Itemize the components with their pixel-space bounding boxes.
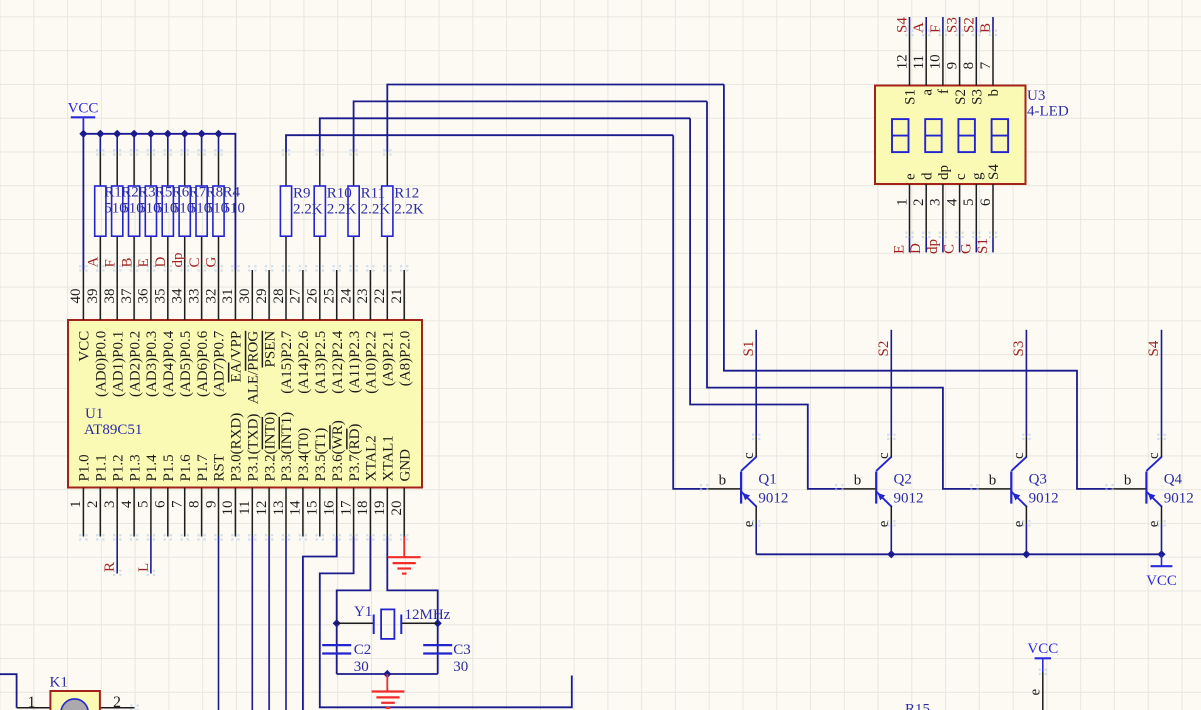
svg-text:C2: C2 (354, 642, 372, 658)
svg-text:R3: R3 (138, 185, 156, 201)
svg-text:2.2K: 2.2K (394, 202, 424, 218)
svg-text:(A10)P2.2: (A10)P2.2 (364, 331, 380, 394)
svg-text:E: E (136, 258, 152, 267)
svg-text:S2: S2 (953, 89, 969, 105)
svg-text:7: 7 (170, 500, 186, 508)
svg-text:R5: R5 (155, 185, 173, 201)
svg-text:34: 34 (170, 288, 186, 304)
svg-text:R9: R9 (293, 186, 311, 202)
svg-text:S1: S1 (903, 89, 919, 105)
svg-text:e: e (1146, 520, 1162, 527)
svg-text:3: 3 (928, 199, 944, 207)
svg-text:Y1: Y1 (354, 604, 372, 620)
svg-text:EA/VPP: EA/VPP (229, 331, 245, 383)
svg-text:d: d (919, 172, 935, 180)
svg-text:b: b (989, 473, 997, 489)
svg-text:U1: U1 (85, 406, 103, 422)
svg-text:7: 7 (978, 61, 994, 69)
svg-text:15: 15 (305, 501, 321, 516)
svg-text:37: 37 (119, 288, 135, 304)
svg-text:Q2: Q2 (894, 472, 912, 488)
svg-text:S4: S4 (1146, 340, 1162, 356)
svg-text:(AD7)P0.7: (AD7)P0.7 (212, 330, 228, 397)
svg-text:10: 10 (220, 501, 236, 516)
svg-text:9012: 9012 (894, 490, 924, 506)
svg-text:P3.7(RD): P3.7(RD) (347, 424, 363, 482)
svg-text:38: 38 (102, 289, 118, 304)
svg-text:(A15)P2.7: (A15)P2.7 (279, 330, 295, 393)
svg-text:510: 510 (223, 201, 246, 217)
svg-text:5: 5 (136, 501, 152, 509)
svg-text:4: 4 (119, 500, 135, 508)
svg-text:S2: S2 (876, 341, 892, 357)
svg-text:C3: C3 (453, 642, 471, 658)
svg-text:29: 29 (254, 289, 270, 304)
svg-text:R6: R6 (172, 185, 190, 201)
svg-text:XTAL2: XTAL2 (364, 435, 380, 481)
svg-text:31: 31 (220, 289, 236, 304)
svg-text:PSEN: PSEN (262, 331, 278, 368)
svg-text:f: f (936, 89, 952, 94)
svg-text:P3.2(INT0): P3.2(INT0) (262, 412, 278, 482)
svg-text:30: 30 (354, 659, 369, 675)
svg-text:c: c (741, 452, 757, 459)
svg-text:e: e (1011, 520, 1027, 527)
svg-text:b: b (986, 89, 1002, 97)
svg-text:K1: K1 (50, 675, 68, 691)
svg-text:(A13)P2.5: (A13)P2.5 (313, 331, 329, 394)
svg-text:10: 10 (928, 54, 944, 69)
svg-text:39: 39 (85, 289, 101, 304)
svg-text:17: 17 (338, 500, 354, 516)
svg-text:P1.7: P1.7 (195, 454, 211, 482)
svg-text:P1.4: P1.4 (144, 454, 160, 482)
svg-text:a: a (919, 89, 935, 96)
svg-text:8: 8 (961, 62, 977, 70)
svg-text:dp: dp (925, 239, 941, 254)
svg-text:Q3: Q3 (1029, 472, 1047, 488)
svg-text:13: 13 (271, 501, 287, 516)
svg-text:ALE/PROG: ALE/PROG (246, 331, 262, 405)
svg-text:9: 9 (944, 62, 960, 70)
svg-text:Q4: Q4 (1164, 472, 1183, 488)
svg-text:R12: R12 (394, 186, 419, 202)
svg-text:2: 2 (911, 199, 927, 207)
svg-text:AT89C51: AT89C51 (84, 422, 142, 438)
svg-text:25: 25 (322, 289, 338, 304)
svg-text:c: c (1146, 452, 1162, 459)
svg-text:4-LED: 4-LED (1027, 104, 1069, 120)
svg-text:S3: S3 (1011, 341, 1027, 357)
svg-text:P3.0(RXD): P3.0(RXD) (229, 413, 245, 482)
svg-text:P3.4(T0): P3.4(T0) (296, 428, 312, 482)
svg-text:Q1: Q1 (758, 472, 776, 488)
svg-text:1: 1 (894, 199, 910, 207)
svg-text:RST: RST (212, 454, 228, 482)
svg-text:12MHz: 12MHz (405, 607, 451, 623)
svg-text:21: 21 (389, 289, 405, 304)
svg-text:36: 36 (136, 288, 152, 304)
svg-text:(AD1)P0.1: (AD1)P0.1 (110, 331, 126, 397)
svg-text:18: 18 (355, 501, 371, 516)
svg-text:1: 1 (28, 694, 36, 710)
svg-text:dp: dp (170, 253, 186, 268)
svg-text:P1.3: P1.3 (127, 454, 143, 481)
svg-text:e: e (741, 520, 757, 527)
svg-text:A: A (86, 257, 102, 268)
svg-text:P1.2: P1.2 (110, 454, 126, 481)
svg-text:B: B (119, 257, 135, 267)
svg-text:1: 1 (68, 501, 84, 509)
svg-text:R15: R15 (905, 702, 930, 710)
svg-text:e: e (876, 520, 892, 527)
svg-text:P1.6: P1.6 (178, 454, 194, 482)
svg-text:c: c (953, 173, 969, 180)
svg-text:28: 28 (271, 289, 287, 304)
svg-text:R11: R11 (361, 186, 385, 202)
svg-text:C: C (187, 257, 203, 267)
svg-text:P1.1: P1.1 (94, 454, 110, 481)
svg-text:11: 11 (911, 55, 927, 69)
svg-text:35: 35 (153, 289, 169, 304)
svg-text:GND: GND (397, 449, 413, 482)
svg-text:c: c (1011, 452, 1027, 459)
svg-text:26: 26 (305, 288, 321, 304)
svg-text:R: R (102, 562, 118, 572)
svg-text:8: 8 (186, 501, 202, 509)
svg-text:P1.5: P1.5 (161, 454, 177, 481)
svg-text:9: 9 (203, 501, 219, 509)
svg-text:14: 14 (288, 500, 304, 516)
svg-text:b: b (719, 473, 727, 489)
svg-text:2.2K: 2.2K (293, 202, 323, 218)
svg-text:(AD3)P0.3: (AD3)P0.3 (144, 331, 160, 397)
svg-text:P3.6(WR): P3.6(WR) (330, 420, 346, 481)
svg-text:S4: S4 (895, 17, 911, 33)
svg-text:XTAL1: XTAL1 (381, 435, 397, 481)
svg-text:33: 33 (186, 289, 202, 304)
svg-text:9012: 9012 (1029, 490, 1059, 506)
svg-text:30: 30 (237, 289, 253, 304)
svg-text:6: 6 (978, 198, 994, 206)
svg-text:2: 2 (113, 694, 121, 710)
svg-text:2: 2 (85, 501, 101, 509)
svg-text:R4: R4 (223, 185, 241, 201)
svg-text:e: e (1028, 689, 1044, 696)
svg-text:P1.0: P1.0 (77, 454, 93, 481)
svg-text:S1: S1 (975, 238, 991, 254)
svg-text:12: 12 (254, 501, 270, 516)
svg-text:U3: U3 (1027, 88, 1045, 104)
svg-text:c: c (876, 452, 892, 459)
svg-text:(AD6)P0.6: (AD6)P0.6 (195, 330, 211, 397)
svg-text:2.2K: 2.2K (327, 202, 357, 218)
svg-text:9012: 9012 (758, 490, 788, 506)
svg-text:R10: R10 (327, 186, 352, 202)
svg-text:C: C (942, 244, 958, 254)
svg-text:(AD0)P0.0: (AD0)P0.0 (94, 331, 110, 397)
svg-text:S4: S4 (986, 164, 1002, 180)
svg-text:F: F (102, 259, 118, 267)
svg-text:b: b (1124, 473, 1132, 489)
svg-text:R1: R1 (104, 185, 122, 201)
svg-text:L: L (136, 563, 152, 572)
svg-text:P3.1(TXD): P3.1(TXD) (246, 414, 262, 482)
svg-text:40: 40 (68, 289, 84, 304)
svg-text:22: 22 (372, 289, 388, 304)
svg-text:(A14)P2.6: (A14)P2.6 (296, 330, 312, 393)
svg-text:(AD2)P0.2: (AD2)P0.2 (127, 331, 143, 397)
svg-text:(AD5)P0.5: (AD5)P0.5 (178, 331, 194, 397)
svg-text:VCC: VCC (1027, 641, 1058, 657)
svg-text:R8: R8 (206, 185, 224, 201)
svg-text:(AD4)P0.4: (AD4)P0.4 (161, 330, 177, 397)
svg-text:32: 32 (203, 289, 219, 304)
svg-text:S3: S3 (970, 89, 986, 105)
svg-text:D: D (153, 257, 169, 268)
svg-text:27: 27 (288, 288, 304, 304)
svg-text:G: G (958, 243, 974, 254)
svg-text:20: 20 (389, 501, 405, 516)
svg-text:D: D (908, 243, 924, 254)
svg-text:12: 12 (894, 54, 910, 69)
svg-text:11: 11 (237, 501, 253, 515)
svg-text:e: e (903, 173, 919, 180)
svg-text:b: b (854, 473, 862, 489)
svg-text:2.2K: 2.2K (361, 202, 391, 218)
svg-text:E: E (892, 245, 908, 254)
svg-text:(A9)P2.1: (A9)P2.1 (381, 331, 397, 386)
svg-text:16: 16 (322, 500, 338, 516)
svg-text:23: 23 (355, 289, 371, 304)
svg-text:dp: dp (936, 165, 952, 180)
svg-text:9012: 9012 (1164, 490, 1194, 506)
svg-text:g: g (970, 172, 986, 180)
svg-text:24: 24 (338, 288, 354, 304)
svg-text:VCC: VCC (1146, 573, 1177, 589)
svg-text:G: G (204, 257, 220, 268)
svg-text:VCC: VCC (77, 331, 93, 362)
svg-text:3: 3 (102, 501, 118, 509)
svg-text:4: 4 (944, 198, 960, 206)
svg-text:19: 19 (372, 501, 388, 516)
svg-text:5: 5 (961, 199, 977, 207)
svg-text:6: 6 (153, 500, 169, 508)
svg-text:R7: R7 (189, 185, 207, 201)
svg-text:P3.3(INT1): P3.3(INT1) (279, 412, 295, 482)
svg-text:30: 30 (453, 659, 468, 675)
svg-text:VCC: VCC (68, 100, 99, 116)
svg-text:(A11)P2.3: (A11)P2.3 (347, 331, 363, 393)
svg-text:(A8)P2.0: (A8)P2.0 (397, 331, 413, 386)
svg-text:(A12)P2.4: (A12)P2.4 (330, 330, 346, 393)
svg-text:R2: R2 (121, 185, 139, 201)
svg-text:S1: S1 (741, 341, 757, 357)
svg-text:P3.5(T1): P3.5(T1) (313, 428, 329, 482)
